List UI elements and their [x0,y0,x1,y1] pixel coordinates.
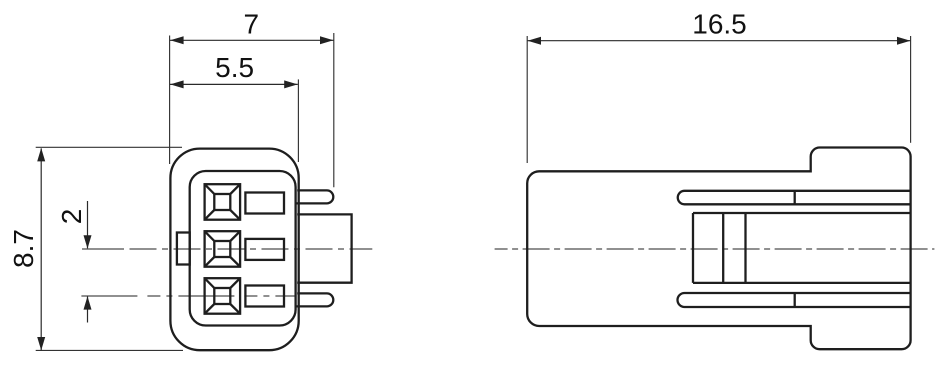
right view bottom slot divider [794,293,796,307]
centerline row3 left view [81,295,295,297]
centerline main left view [82,248,124,250]
terminal square 2 outer [205,231,241,267]
right view terminal box divider 2 [744,213,746,283]
dimension line 8.7 [40,148,42,350]
extension line right of 7 [333,33,335,187]
right view top slot divider [794,191,796,205]
terminal square 1 outer [205,184,241,220]
right bottom lock tab [297,293,334,306]
svg-text:5.5: 5.5 [215,52,254,83]
svg-text:2: 2 [56,209,87,225]
right view bottom slot [678,293,911,307]
extension line bottom of 8.7 [36,349,183,351]
left side tab [177,233,190,265]
centerline right view [495,248,935,250]
left view outer body [170,149,298,351]
terminal square 3 outer [205,278,241,314]
right view terminal box divider 1 [722,213,724,283]
terminal square 3 inner [214,288,230,304]
dimension line 7 [170,39,334,41]
cavity rect 3 [245,286,284,307]
extension line right of 5.5 [297,79,299,162]
dimension line 2 [87,201,89,323]
terminal square 2 inner [214,241,230,257]
extension line top of 8.7 [36,146,182,148]
right view body outline [527,148,910,350]
terminal square 3 chamfer lines [205,278,241,314]
left view inner body [190,171,296,326]
extension line left of 16.5 [526,36,528,163]
cavity rect 1 [245,193,284,214]
center protrusion [297,214,351,282]
right view top slot [678,191,911,205]
extension line left of 7/5.5 [169,36,171,165]
svg-text:7: 7 [244,9,260,40]
svg-text:16.5: 16.5 [692,9,747,40]
svg-text:8.7: 8.7 [8,229,39,268]
right view terminal channel top line [693,212,911,214]
cavity rect 2 [245,239,284,260]
terminal square 1 chamfer lines [205,184,241,220]
right top lock tab [297,190,334,203]
dimension line 5.5 [170,83,298,85]
terminal square 1 inner [214,194,230,210]
right view terminal channel bottom line [693,282,911,284]
dimension line 16.5 [527,40,910,42]
extension line right of 16.5 [910,36,912,143]
right view terminal box left edge [692,213,694,283]
terminal square 2 chamfer lines [205,231,241,267]
